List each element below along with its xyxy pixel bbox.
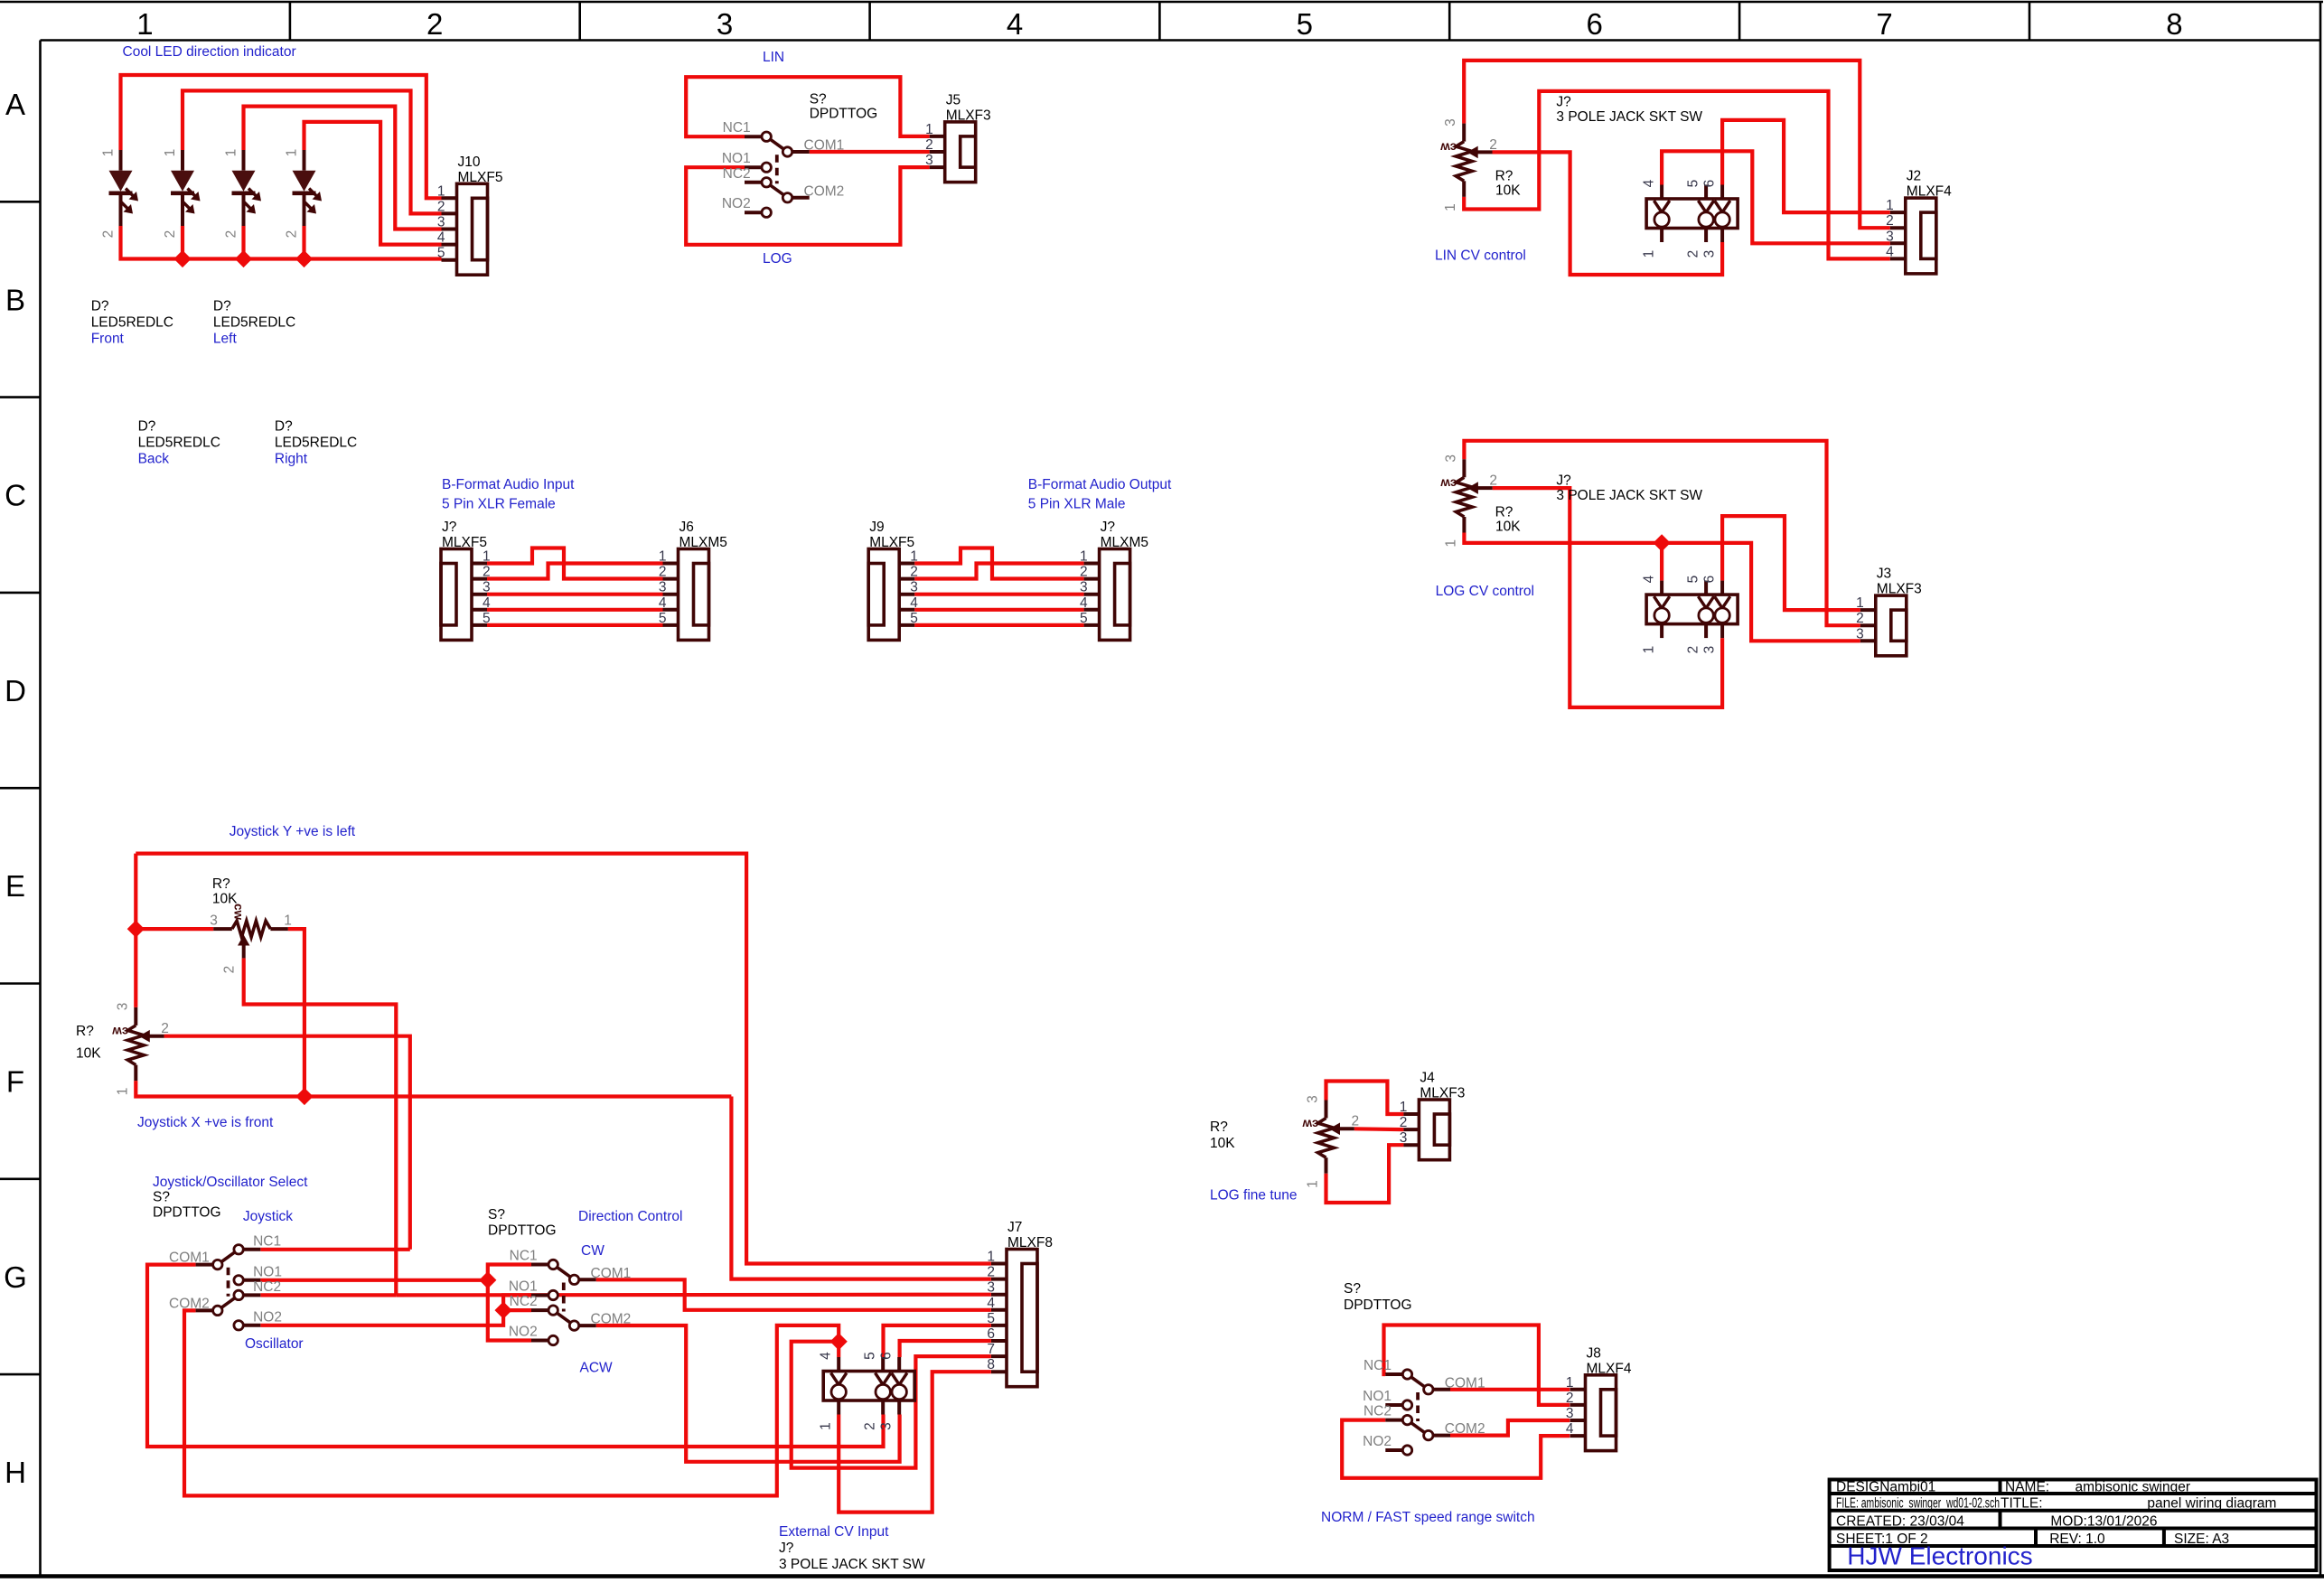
svg-text:NAME:: NAME: — [2005, 1479, 2049, 1494]
svg-text:4: 4 — [987, 1296, 995, 1311]
svg-text:2: 2 — [1856, 611, 1864, 626]
svg-text:NO1: NO1 — [722, 151, 751, 166]
svg-text:Oscillator: Oscillator — [245, 1336, 304, 1352]
svg-text:J?: J? — [1556, 95, 1571, 110]
svg-text:3: 3 — [1702, 646, 1718, 654]
svg-text:2: 2 — [1686, 250, 1701, 258]
svg-text:LED5REDLC: LED5REDLC — [275, 436, 357, 451]
svg-text:10K: 10K — [1495, 183, 1521, 199]
svg-text:COM2: COM2 — [591, 1312, 632, 1327]
svg-text:3: 3 — [1566, 1406, 1574, 1421]
svg-text:2: 2 — [925, 137, 933, 153]
svg-text:NC1: NC1 — [1363, 1358, 1392, 1373]
svg-text:5: 5 — [659, 611, 667, 626]
svg-text:R?: R? — [76, 1024, 94, 1039]
svg-text:3: 3 — [1443, 118, 1458, 126]
svg-text:2: 2 — [1566, 1391, 1574, 1406]
svg-text:2: 2 — [161, 1021, 169, 1036]
svg-text:2: 2 — [659, 565, 667, 580]
svg-text:5: 5 — [1686, 576, 1701, 584]
svg-text:R?: R? — [1495, 169, 1513, 184]
svg-text:1: 1 — [284, 913, 292, 929]
svg-text:1: 1 — [1306, 1180, 1321, 1188]
svg-text:J4: J4 — [1420, 1071, 1435, 1086]
svg-text:D: D — [5, 674, 26, 707]
svg-text:3: 3 — [659, 580, 667, 595]
svg-text:2: 2 — [224, 230, 239, 239]
svg-text:LIN: LIN — [763, 50, 784, 65]
svg-text:2: 2 — [987, 1265, 995, 1280]
svg-text:2: 2 — [863, 1422, 878, 1430]
svg-text:5: 5 — [1686, 180, 1701, 188]
svg-text:B-Format Audio Output: B-Format Audio Output — [1028, 477, 1172, 492]
svg-text:NC2: NC2 — [723, 166, 751, 182]
svg-text:HJW Electronics: HJW Electronics — [1847, 1542, 2032, 1570]
svg-text:6: 6 — [1587, 7, 1603, 41]
svg-text:1: 1 — [101, 149, 117, 157]
svg-text:D?: D? — [213, 299, 231, 314]
svg-text:2: 2 — [1886, 213, 1894, 229]
svg-text:4: 4 — [910, 595, 918, 611]
svg-text:1: 1 — [1080, 549, 1088, 565]
svg-text:5 Pin XLR Female: 5 Pin XLR Female — [442, 497, 556, 512]
svg-text:2: 2 — [163, 230, 178, 239]
svg-text:MLXF4: MLXF4 — [1587, 1361, 1632, 1376]
svg-text:NORM / FAST speed range switch: NORM / FAST speed range switch — [1321, 1510, 1535, 1525]
svg-text:MLXF5: MLXF5 — [869, 535, 914, 550]
svg-text:10K: 10K — [76, 1045, 101, 1061]
svg-text:NO1: NO1 — [509, 1279, 538, 1295]
svg-text:COM1: COM1 — [804, 138, 845, 154]
svg-text:cw: cw — [1440, 476, 1457, 490]
svg-text:MLXM5: MLXM5 — [1101, 535, 1148, 550]
svg-text:3: 3 — [437, 215, 445, 230]
svg-text:External CV Input: External CV Input — [779, 1524, 889, 1540]
svg-text:COM1: COM1 — [1445, 1375, 1485, 1391]
svg-text:REV: 1.0: REV: 1.0 — [2049, 1531, 2105, 1547]
svg-text:2: 2 — [221, 966, 237, 974]
svg-text:1: 1 — [1856, 595, 1864, 611]
svg-text:FILE: ambisonic_swinger_wd01-0: FILE: ambisonic_swinger_wd01-02.sch — [1836, 1496, 2000, 1512]
svg-text:5: 5 — [1080, 611, 1088, 626]
svg-text:J7: J7 — [1007, 1220, 1022, 1235]
svg-text:DPDTTOG: DPDTTOG — [810, 107, 878, 122]
svg-text:10K: 10K — [1495, 520, 1521, 535]
svg-text:3: 3 — [483, 580, 491, 595]
svg-text:MLXF3: MLXF3 — [1877, 582, 1922, 597]
svg-text:NC1: NC1 — [723, 120, 751, 136]
svg-text:3: 3 — [910, 580, 918, 595]
svg-text:D?: D? — [138, 419, 156, 435]
svg-text:Joystick/Oscillator Select: Joystick/Oscillator Select — [153, 1175, 308, 1190]
svg-text:4: 4 — [1642, 575, 1657, 583]
svg-text:4: 4 — [1080, 595, 1088, 611]
svg-text:S?: S? — [810, 92, 827, 108]
svg-text:NC1: NC1 — [510, 1249, 538, 1264]
svg-text:R?: R? — [1495, 505, 1513, 520]
svg-text:1: 1 — [1400, 1100, 1408, 1115]
svg-text:8: 8 — [2166, 7, 2182, 41]
svg-text:NC2: NC2 — [510, 1294, 538, 1309]
svg-text:2: 2 — [437, 199, 445, 214]
svg-text:6: 6 — [1702, 180, 1718, 188]
svg-text:2: 2 — [426, 7, 443, 41]
svg-text:J6: J6 — [679, 520, 694, 535]
svg-text:LOG CV control: LOG CV control — [1436, 584, 1534, 599]
svg-text:Back: Back — [138, 452, 170, 467]
svg-text:1: 1 — [1566, 1375, 1574, 1391]
svg-text:LED5REDLC: LED5REDLC — [138, 436, 220, 451]
svg-text:Cool LED direction indicator: Cool LED direction indicator — [123, 44, 296, 60]
svg-text:1: 1 — [910, 549, 918, 565]
svg-text:6: 6 — [987, 1326, 995, 1342]
svg-text:NO2: NO2 — [722, 196, 751, 211]
svg-text:1: 1 — [659, 549, 667, 565]
svg-text:LED5REDLC: LED5REDLC — [91, 315, 173, 331]
svg-text:S?: S? — [1344, 1281, 1361, 1297]
svg-text:Joystick: Joystick — [243, 1209, 293, 1224]
svg-text:5: 5 — [483, 611, 491, 626]
svg-text:MLXM5: MLXM5 — [679, 535, 727, 550]
svg-text:Front: Front — [91, 332, 125, 347]
svg-text:3: 3 — [115, 1003, 130, 1011]
svg-text:2: 2 — [285, 230, 300, 239]
svg-text:panel wiring diagram: panel wiring diagram — [2147, 1496, 2276, 1512]
svg-text:J?: J? — [442, 520, 457, 535]
svg-text:C: C — [5, 479, 26, 512]
svg-text:G: G — [4, 1260, 27, 1294]
svg-text:4: 4 — [819, 1352, 834, 1360]
svg-text:Joystick X +ve is front: Joystick X +ve is front — [137, 1115, 274, 1130]
svg-text:MOD:13/01/2026: MOD:13/01/2026 — [2050, 1513, 2157, 1529]
svg-text:2: 2 — [1400, 1115, 1408, 1130]
svg-text:J3: J3 — [1877, 567, 1891, 582]
svg-text:J?: J? — [1556, 473, 1571, 489]
svg-text:F: F — [6, 1065, 24, 1099]
svg-text:cw: cw — [1302, 1118, 1319, 1131]
svg-text:DPDTTOG: DPDTTOG — [488, 1223, 557, 1239]
svg-text:J8: J8 — [1587, 1345, 1601, 1361]
svg-text:5: 5 — [437, 246, 445, 261]
svg-text:Right: Right — [275, 452, 308, 467]
svg-text:S?: S? — [153, 1190, 170, 1205]
svg-text:NC1: NC1 — [253, 1233, 281, 1249]
svg-text:7: 7 — [987, 1342, 995, 1357]
svg-text:3: 3 — [879, 1422, 895, 1430]
svg-text:4: 4 — [1886, 244, 1894, 259]
svg-text:1: 1 — [925, 122, 933, 137]
svg-text:COM2: COM2 — [169, 1296, 210, 1311]
svg-text:DPDTTOG: DPDTTOG — [153, 1205, 221, 1221]
svg-text:4: 4 — [1642, 179, 1657, 187]
svg-text:4: 4 — [1566, 1421, 1574, 1437]
svg-text:1: 1 — [115, 1088, 130, 1096]
svg-text:1: 1 — [437, 183, 445, 199]
svg-text:cw: cw — [112, 1025, 129, 1038]
svg-text:3: 3 — [1306, 1095, 1321, 1103]
svg-text:1: 1 — [163, 149, 178, 157]
svg-text:1: 1 — [224, 149, 239, 157]
svg-text:MLXF3: MLXF3 — [1420, 1086, 1465, 1101]
svg-text:1: 1 — [819, 1422, 834, 1430]
svg-text:5 Pin XLR Male: 5 Pin XLR Male — [1028, 497, 1126, 512]
svg-text:3 POLE JACK SKT SW: 3 POLE JACK SKT SW — [779, 1557, 925, 1572]
svg-text:Joystick Y +ve is left: Joystick Y +ve is left — [230, 824, 356, 839]
svg-text:B-Format Audio Input: B-Format Audio Input — [442, 477, 575, 492]
svg-text:1: 1 — [136, 7, 153, 41]
svg-text:NC2: NC2 — [253, 1279, 281, 1295]
svg-text:3: 3 — [1856, 626, 1864, 642]
svg-text:LED5REDLC: LED5REDLC — [213, 315, 295, 331]
svg-text:3: 3 — [1080, 580, 1088, 595]
svg-text:4: 4 — [437, 230, 445, 246]
svg-text:3: 3 — [987, 1280, 995, 1296]
svg-text:J10: J10 — [458, 155, 481, 170]
svg-text:3: 3 — [1443, 454, 1458, 463]
svg-text:Left: Left — [213, 332, 238, 347]
svg-text:J5: J5 — [946, 92, 961, 108]
svg-text:4: 4 — [1007, 7, 1023, 41]
svg-text:TITLE:: TITLE: — [2001, 1496, 2043, 1512]
svg-text:A: A — [5, 88, 25, 121]
svg-text:3: 3 — [210, 913, 218, 929]
svg-text:COM1: COM1 — [591, 1266, 632, 1281]
svg-text:CW: CW — [581, 1243, 604, 1259]
svg-text:2: 2 — [1080, 565, 1088, 580]
svg-text:7: 7 — [1876, 7, 1892, 41]
svg-text:S?: S? — [488, 1207, 505, 1222]
svg-text:2: 2 — [1489, 473, 1497, 489]
svg-text:5: 5 — [863, 1352, 878, 1360]
svg-text:MLXF8: MLXF8 — [1007, 1235, 1053, 1250]
svg-text:J2: J2 — [1907, 169, 1921, 184]
svg-text:D?: D? — [91, 299, 109, 314]
svg-text:1: 1 — [285, 149, 300, 157]
svg-text:NO2: NO2 — [509, 1325, 538, 1340]
svg-text:H: H — [5, 1456, 26, 1489]
svg-text:D?: D? — [275, 419, 293, 435]
svg-text:DESIGNambi01: DESIGNambi01 — [1836, 1479, 1935, 1494]
svg-text:NO1: NO1 — [1363, 1389, 1392, 1404]
svg-text:3: 3 — [717, 7, 733, 41]
svg-text:5: 5 — [910, 611, 918, 626]
svg-text:NO2: NO2 — [253, 1309, 282, 1325]
svg-text:LOG fine tune: LOG fine tune — [1210, 1188, 1298, 1204]
svg-text:3: 3 — [1886, 229, 1894, 244]
svg-text:5: 5 — [1297, 7, 1313, 41]
svg-text:E: E — [5, 869, 25, 903]
svg-text:2: 2 — [910, 565, 918, 580]
svg-text:8: 8 — [987, 1357, 995, 1372]
svg-text:10K: 10K — [212, 892, 238, 907]
svg-text:J?: J? — [1101, 520, 1116, 535]
svg-text:3: 3 — [1400, 1130, 1408, 1146]
svg-text:B: B — [5, 283, 25, 316]
svg-text:COM1: COM1 — [169, 1250, 210, 1266]
svg-text:MLXF5: MLXF5 — [442, 535, 487, 550]
svg-text:CREATED: 23/03/04: CREATED: 23/03/04 — [1836, 1513, 1964, 1529]
svg-text:3 POLE JACK SKT SW: 3 POLE JACK SKT SW — [1556, 488, 1702, 503]
svg-text:SIZE: A3: SIZE: A3 — [2174, 1531, 2229, 1547]
svg-text:6: 6 — [879, 1352, 895, 1360]
svg-text:NO2: NO2 — [1363, 1434, 1392, 1449]
svg-text:2: 2 — [1352, 1114, 1360, 1129]
svg-text:3 POLE JACK SKT SW: 3 POLE JACK SKT SW — [1556, 109, 1702, 125]
svg-text:1: 1 — [1443, 539, 1458, 548]
svg-text:2: 2 — [1489, 137, 1497, 153]
svg-text:3: 3 — [925, 153, 933, 168]
svg-text:Direction Control: Direction Control — [578, 1209, 682, 1224]
svg-text:3: 3 — [1702, 250, 1718, 258]
svg-text:1: 1 — [1642, 250, 1657, 258]
svg-text:R?: R? — [212, 876, 230, 892]
svg-text:R?: R? — [1210, 1119, 1228, 1135]
svg-text:LOG: LOG — [763, 251, 792, 267]
svg-text:6: 6 — [1702, 576, 1718, 584]
svg-text:DPDTTOG: DPDTTOG — [1344, 1297, 1412, 1313]
svg-text:MLXF5: MLXF5 — [458, 170, 503, 185]
svg-text:2: 2 — [483, 565, 491, 580]
svg-text:1: 1 — [483, 549, 491, 565]
svg-text:1: 1 — [1642, 646, 1657, 654]
svg-text:1: 1 — [1886, 198, 1894, 213]
svg-text:J9: J9 — [869, 520, 884, 535]
svg-text:2: 2 — [101, 230, 117, 239]
svg-text:LIN CV control: LIN CV control — [1435, 248, 1526, 264]
svg-text:2: 2 — [1686, 646, 1701, 654]
svg-text:ACW: ACW — [580, 1361, 614, 1376]
svg-text:ambisonic swinger: ambisonic swinger — [2076, 1479, 2191, 1494]
svg-text:4: 4 — [483, 595, 491, 611]
svg-text:MLXF3: MLXF3 — [946, 108, 991, 123]
svg-text:NC2: NC2 — [1363, 1404, 1392, 1419]
svg-text:1: 1 — [987, 1250, 995, 1265]
svg-text:COM2: COM2 — [804, 183, 845, 199]
svg-text:NO1: NO1 — [253, 1264, 282, 1279]
svg-text:5: 5 — [987, 1311, 995, 1326]
svg-text:J?: J? — [779, 1541, 794, 1556]
svg-text:1: 1 — [1443, 203, 1458, 211]
svg-text:MLXF4: MLXF4 — [1907, 184, 1952, 200]
svg-text:4: 4 — [659, 595, 667, 611]
svg-text:COM2: COM2 — [1445, 1421, 1485, 1437]
svg-text:cw: cw — [1440, 141, 1457, 155]
svg-text:10K: 10K — [1210, 1136, 1235, 1151]
